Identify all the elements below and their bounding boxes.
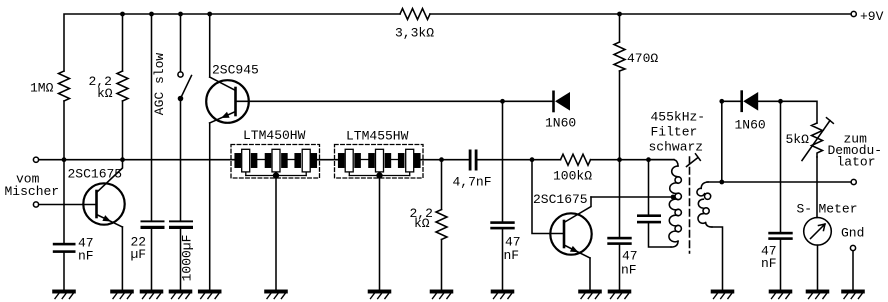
resistor 2,2kΩ (first) (117, 71, 128, 101)
wire: 2,2kΩ bottom to node (122, 101, 124, 160)
wire: 1MΩ bottom to input node (63, 101, 65, 160)
node dot 2,2kΩ second (439, 157, 444, 162)
capacitor C4 47nF (768, 232, 792, 240)
svg-text:1N60: 1N60 (545, 116, 576, 131)
capacitor 22µF (141, 220, 165, 229)
node dot AGC filter branch (778, 99, 783, 104)
svg-text:µF: µF (131, 247, 147, 262)
wire: rail to 2,2kΩ (122, 14, 124, 71)
wire: rail to 22µF (151, 14, 153, 220)
ground (C3) (609, 290, 631, 298)
wire: +9V top rail right segment (430, 13, 851, 15)
diode D2 1N60 (742, 92, 759, 111)
node dot top rail switch (178, 12, 183, 17)
ceramic filter LTM450HW (231, 145, 320, 179)
svg-text:LTM455HW: LTM455HW (346, 129, 409, 144)
wire: Q2 emitter to ground (209, 123, 211, 291)
ground (C0) (53, 290, 75, 298)
wire: tank cap bottom lead (649, 223, 672, 247)
transformer primary (649, 160, 682, 247)
svg-text:2SC1675: 2SC1675 (68, 167, 123, 182)
wire: filter2 out to 4,7nF (418, 159, 469, 161)
svg-text:Filter: Filter (651, 125, 698, 140)
svg-text:nF: nF (621, 263, 637, 278)
wire: Q3 emitter to ground (589, 258, 591, 291)
capacitor 1000µF (169, 220, 193, 229)
svg-text:LTM450HW: LTM450HW (243, 128, 306, 143)
wire: rail to switch (180, 14, 182, 72)
wire: 5kΩ to S-meter (816, 157, 818, 218)
wire: input node row (39, 159, 237, 161)
svg-text:100kΩ: 100kΩ (553, 169, 592, 184)
svg-text:1MΩ: 1MΩ (30, 81, 54, 96)
capacitor C0 47nF (53, 243, 76, 253)
wire: switch to 1000µF (180, 99, 182, 221)
node dot demod/diode branch (719, 180, 724, 185)
node dot tank node (646, 157, 651, 162)
node dot top rail 2,2kΩ (120, 12, 125, 17)
wire: demodulator line (707, 181, 851, 183)
svg-text:5kΩ: 5kΩ (786, 132, 810, 147)
transformer secondary (697, 182, 723, 291)
terminal vom Mischer (top) (33, 157, 38, 162)
node dot top rail 470Ω (617, 12, 622, 17)
ground (Q3 emitter) (579, 290, 601, 298)
ground (filter1) (265, 290, 287, 298)
svg-text:Mischer: Mischer (5, 184, 60, 199)
diode D1 1N60 (554, 92, 571, 111)
wire: C4 to ground (780, 240, 782, 291)
wire: C1 to ground (502, 229, 504, 290)
wire: 470Ω down to 47nF C3 (619, 71, 621, 237)
svg-text:470Ω: 470Ω (627, 51, 658, 66)
wire: AGC filter cap C4 lead (780, 101, 782, 232)
wire: AGC cap C1 (47nF) top lead (502, 101, 504, 221)
capacitor C1 47nF (490, 221, 514, 229)
ground (secondary) (712, 290, 734, 298)
wire: D2 to 5kΩ corner (758, 101, 817, 123)
wire: 1000µF to ground (180, 229, 182, 291)
ground (1000µF) (170, 290, 192, 298)
terminal zum Demodulator (851, 179, 856, 184)
node dot top rail Q2 collector (207, 12, 212, 17)
potentiometer 5kΩ (802, 118, 833, 161)
terminal vom Mischer (bottom) (33, 202, 38, 207)
svg-text:nF: nF (504, 248, 520, 263)
ground (Q1 emitter) (111, 290, 133, 298)
wire: 22µF to ground (151, 229, 153, 291)
transistor Q1 2SC1675 (83, 160, 124, 227)
ground (Q2 emitter) (199, 290, 221, 298)
wire: node to 2,2kΩ second (441, 160, 443, 210)
svg-text:kΩ: kΩ (97, 86, 113, 101)
wire: diode row to D2 (722, 100, 742, 102)
ground (Gnd terminal) (842, 290, 864, 298)
resistor 1MΩ (59, 71, 70, 101)
ground (22µF) (141, 290, 163, 298)
ground (S-meter) (807, 290, 829, 298)
ground (filter2) (369, 290, 391, 298)
capacitor C3 47nF (607, 237, 631, 245)
wire: filter1 ground (275, 176, 277, 291)
node dot Q3 base branch (530, 157, 535, 162)
svg-text:+9V: +9V (860, 9, 884, 24)
svg-text:AGC slow: AGC slow (152, 53, 167, 116)
node dot tap (671, 195, 676, 200)
node dot collector node (120, 157, 125, 162)
wire: filter2 ground (379, 176, 381, 291)
wire: 47nF C0 top lead (63, 160, 65, 243)
svg-text:nF: nF (78, 249, 94, 264)
svg-text:lator: lator (837, 155, 876, 170)
wire: Q1 emitter to ground (121, 227, 123, 291)
wire: S-meter to ground (817, 245, 819, 290)
switch AGC slow (178, 72, 192, 101)
terminal +9V (851, 11, 856, 16)
ground (C4) (770, 290, 792, 298)
resistor 470Ω (614, 42, 625, 71)
svg-text:3,3kΩ: 3,3kΩ (395, 26, 434, 41)
transformer tuning arrow (687, 154, 701, 167)
svg-text:2SC945: 2SC945 (212, 63, 259, 78)
wire: Q3 base branch (532, 160, 564, 234)
resistor 100kΩ (561, 154, 591, 165)
wire: 2,2kΩ second to ground (441, 240, 443, 291)
terminal Gnd (850, 245, 855, 250)
svg-text:455kHz-: 455kHz- (651, 110, 706, 125)
wire: C0 bottom to ground (63, 253, 65, 291)
ground (C1) (492, 290, 514, 298)
resistor 3,3kΩ (top rail) (400, 9, 430, 20)
svg-text:Meter: Meter (819, 202, 858, 217)
node dot supply node (617, 157, 622, 162)
wire: +9V top rail left segment (64, 14, 400, 71)
ground (2,2kΩ second) (431, 290, 453, 298)
wire: Q3 collector to transformer tap (591, 196, 672, 198)
wire: branch up to diode row (721, 101, 723, 182)
svg-text:1000µF: 1000µF (180, 235, 195, 282)
svg-text:schwarz: schwarz (649, 140, 704, 155)
transformer core (dashed) (689, 157, 691, 253)
svg-text:S-: S- (797, 202, 813, 217)
wire: rail to 470Ω (619, 14, 621, 42)
node dot input/1MΩ (62, 157, 67, 162)
wire: tank cap top lead (648, 160, 650, 215)
transistor Q2 2SC945 (206, 77, 249, 123)
transistor Q3 2SC1675 (550, 197, 591, 258)
svg-text:kΩ: kΩ (414, 216, 430, 231)
node dot top rail 22µF (149, 12, 154, 17)
node dot AGC row / C1 (500, 99, 505, 104)
svg-text:nF: nF (761, 256, 777, 271)
wire: filter1 out to filter2 in (315, 159, 340, 161)
wire: C3 to ground (619, 245, 621, 291)
meter S-Meter (804, 218, 832, 246)
wire: AGC row (Q2 base to right) (236, 100, 554, 102)
wire: rail to Q2 collector (209, 14, 211, 77)
svg-text:1N60: 1N60 (735, 118, 766, 133)
resistor 2,2kΩ second (436, 210, 447, 240)
capacitor 4,7nF (469, 150, 478, 171)
wire: 100kΩ to transformer node (591, 159, 675, 161)
svg-text:47: 47 (622, 249, 638, 264)
ceramic filter LTM455HW (335, 145, 424, 179)
wire: base lead Q1 (39, 204, 97, 206)
svg-text:4,7nF: 4,7nF (453, 174, 492, 189)
node dot diode row left (719, 99, 724, 104)
wire: Gnd terminal to ground (852, 251, 854, 291)
capacitor tank (637, 214, 661, 223)
svg-text:Gnd: Gnd (841, 226, 864, 241)
svg-text:2SC1675: 2SC1675 (533, 192, 588, 207)
wire: 4,7nF to 100kΩ (478, 159, 561, 161)
